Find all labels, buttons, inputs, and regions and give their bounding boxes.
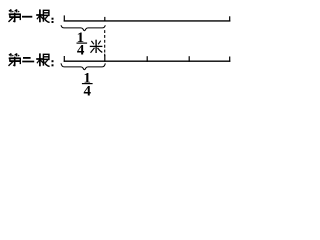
svg-text:4: 4 bbox=[83, 83, 91, 99]
svg-text:4: 4 bbox=[77, 43, 85, 59]
